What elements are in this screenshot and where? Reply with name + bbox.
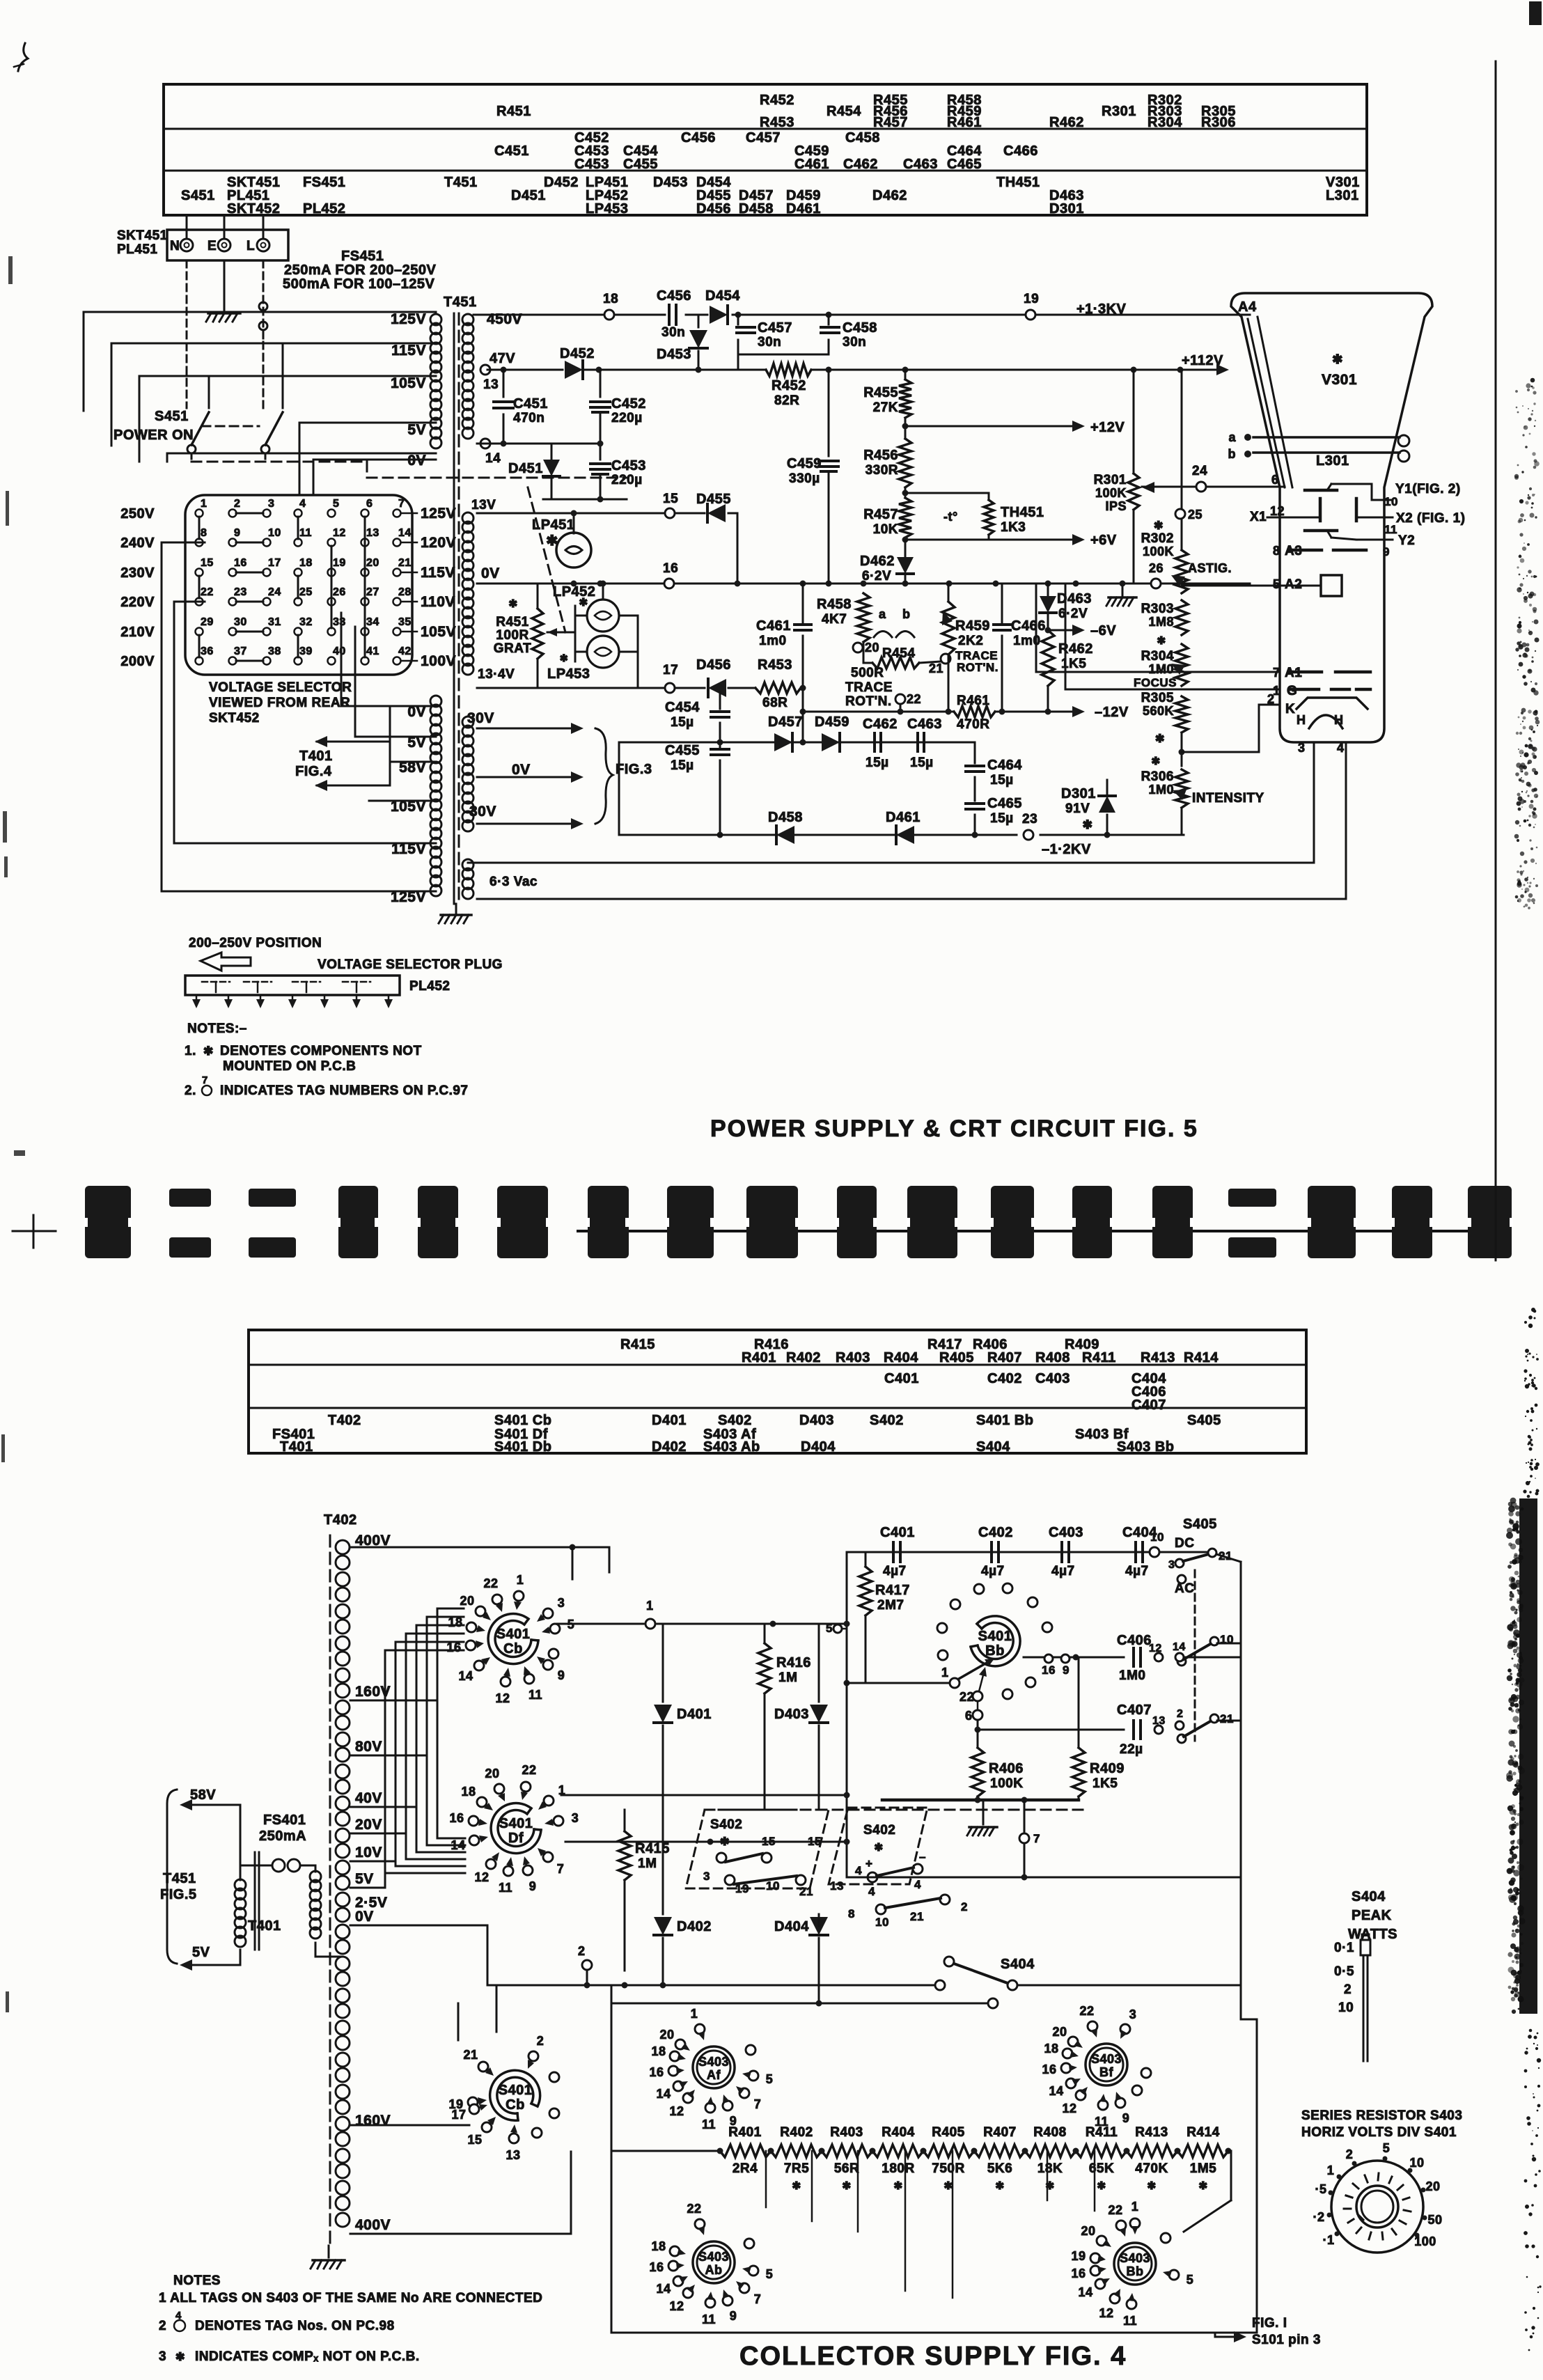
svg-text:11: 11 xyxy=(702,2117,716,2131)
svg-text:330R: 330R xyxy=(866,463,898,478)
svg-text:PL452: PL452 xyxy=(409,979,450,994)
svg-text:3: 3 xyxy=(558,1596,565,1610)
svg-text:L301: L301 xyxy=(1326,188,1359,203)
svg-text:26: 26 xyxy=(1149,561,1164,575)
svg-text:C461: C461 xyxy=(794,157,829,172)
svg-text:FS451: FS451 xyxy=(303,175,345,190)
svg-text:D301: D301 xyxy=(1049,201,1084,217)
svg-text:C401: C401 xyxy=(884,1371,919,1386)
svg-text:R408: R408 xyxy=(1033,2125,1066,2140)
svg-text:21: 21 xyxy=(799,1885,813,1898)
svg-text:4µ7: 4µ7 xyxy=(1051,1564,1075,1579)
svg-text:FIG. I: FIG. I xyxy=(1252,2316,1287,2331)
svg-text:34: 34 xyxy=(366,616,379,628)
svg-text:30n: 30n xyxy=(661,325,685,340)
svg-text:D402: D402 xyxy=(677,1919,712,1934)
svg-text:9: 9 xyxy=(529,1879,537,1893)
svg-text:12: 12 xyxy=(669,2104,684,2118)
svg-text:21: 21 xyxy=(910,1910,924,1923)
svg-text:R306: R306 xyxy=(1201,115,1236,130)
svg-text:C465: C465 xyxy=(987,796,1022,811)
svg-text:–6V: –6V xyxy=(1090,623,1116,639)
svg-text:+1·3KV: +1·3KV xyxy=(1076,302,1127,317)
svg-text:37: 37 xyxy=(234,645,247,657)
svg-text:38: 38 xyxy=(268,645,281,657)
svg-text:12: 12 xyxy=(1149,1643,1162,1654)
svg-text:1: 1 xyxy=(201,498,207,510)
svg-text:1M: 1M xyxy=(778,1670,797,1685)
svg-text:S451: S451 xyxy=(181,188,215,203)
svg-text:SKT451: SKT451 xyxy=(117,228,168,243)
svg-text:D403: D403 xyxy=(774,1707,809,1722)
svg-text:✱: ✱ xyxy=(720,1836,730,1848)
svg-text:240V: 240V xyxy=(120,535,155,551)
svg-text:T401: T401 xyxy=(280,1439,313,1455)
svg-text:✱: ✱ xyxy=(1332,352,1343,366)
svg-text:+6V: +6V xyxy=(1090,533,1117,548)
svg-text:22: 22 xyxy=(483,1576,498,1590)
svg-text:T451: T451 xyxy=(163,1871,196,1886)
svg-text:7: 7 xyxy=(754,2097,762,2111)
svg-text:4: 4 xyxy=(1337,741,1345,755)
svg-text:16: 16 xyxy=(649,2260,664,2274)
svg-text:C457: C457 xyxy=(758,320,792,336)
svg-text:11: 11 xyxy=(1123,2314,1137,2328)
svg-text:R405: R405 xyxy=(932,2125,964,2140)
svg-text:40: 40 xyxy=(333,645,346,657)
svg-text:12: 12 xyxy=(474,1870,489,1884)
svg-text:R407: R407 xyxy=(983,2125,1016,2140)
svg-text:450V: 450V xyxy=(487,311,522,327)
svg-text:✱: ✱ xyxy=(1151,756,1160,767)
svg-text:10: 10 xyxy=(766,1879,780,1893)
svg-text:POWER ON: POWER ON xyxy=(113,428,194,443)
svg-text:FS451: FS451 xyxy=(341,249,384,264)
svg-text:24: 24 xyxy=(268,586,281,598)
svg-text:14: 14 xyxy=(1078,2285,1092,2299)
svg-text:22: 22 xyxy=(522,1763,536,1777)
svg-text:30V: 30V xyxy=(469,804,496,820)
svg-text:23: 23 xyxy=(234,586,247,598)
svg-text:C462: C462 xyxy=(863,717,898,732)
svg-text:20: 20 xyxy=(485,1767,499,1780)
svg-text:R402: R402 xyxy=(786,1350,821,1365)
svg-text:120V: 120V xyxy=(421,535,456,551)
svg-text:9: 9 xyxy=(1063,1663,1070,1677)
svg-text:7: 7 xyxy=(1033,1832,1040,1845)
svg-text:C455: C455 xyxy=(623,157,658,172)
svg-text:1: 1 xyxy=(646,1599,654,1613)
svg-text:560K: 560K xyxy=(1143,704,1174,718)
svg-text:15: 15 xyxy=(201,557,214,569)
svg-text:WATTS: WATTS xyxy=(1348,1927,1397,1942)
svg-text:✱: ✱ xyxy=(1155,733,1165,745)
svg-text:5V: 5V xyxy=(355,1871,374,1887)
svg-text:100R: 100R xyxy=(496,628,528,643)
svg-text:0V: 0V xyxy=(481,565,500,581)
svg-text:30n: 30n xyxy=(843,335,866,350)
svg-text:a: a xyxy=(1228,430,1236,444)
svg-text:1K3: 1K3 xyxy=(1001,520,1026,535)
svg-text:30V: 30V xyxy=(467,710,494,726)
svg-text:FIG.4: FIG.4 xyxy=(295,764,332,779)
svg-text:27: 27 xyxy=(366,586,379,598)
svg-text:C402: C402 xyxy=(978,1525,1013,1540)
svg-text:1M0: 1M0 xyxy=(1148,662,1174,676)
svg-text:S402: S402 xyxy=(718,1413,752,1428)
svg-text:2M7: 2M7 xyxy=(877,1598,904,1613)
svg-text:✱: ✱ xyxy=(560,652,568,664)
svg-text:DENOTES TAG Nos. ON PC.98: DENOTES TAG Nos. ON PC.98 xyxy=(195,2319,395,2333)
svg-text:Cb: Cb xyxy=(506,2097,525,2113)
svg-text:22µ: 22µ xyxy=(1120,1742,1143,1757)
svg-text:R452: R452 xyxy=(771,378,806,393)
svg-text:✱: ✱ xyxy=(203,1044,214,1058)
svg-text:T451: T451 xyxy=(444,175,478,190)
svg-text:100K: 100K xyxy=(990,1776,1023,1791)
svg-text:D452: D452 xyxy=(560,346,595,361)
svg-text:0·1: 0·1 xyxy=(1334,1941,1354,1955)
svg-text:31: 31 xyxy=(268,616,281,628)
svg-text:R408: R408 xyxy=(1035,1350,1070,1365)
svg-text:R404: R404 xyxy=(884,1350,918,1365)
svg-text:13: 13 xyxy=(1152,1715,1166,1727)
svg-text:50: 50 xyxy=(1427,2213,1442,2227)
svg-text:4: 4 xyxy=(914,1878,921,1891)
svg-text:C461: C461 xyxy=(756,618,791,634)
svg-text:8: 8 xyxy=(201,527,207,539)
svg-text:18: 18 xyxy=(461,1785,476,1799)
svg-text:D453: D453 xyxy=(657,347,691,362)
svg-text:C455: C455 xyxy=(665,743,700,758)
svg-text:✱: ✱ xyxy=(842,2180,851,2192)
svg-text:R413: R413 xyxy=(1141,1350,1175,1365)
svg-text:40V: 40V xyxy=(355,1790,382,1806)
svg-text:9: 9 xyxy=(1383,545,1390,558)
svg-text:29: 29 xyxy=(201,616,214,628)
svg-text:22: 22 xyxy=(1108,2203,1122,2217)
svg-text:250V: 250V xyxy=(120,506,155,522)
svg-text:11: 11 xyxy=(702,2312,716,2326)
svg-text:42: 42 xyxy=(398,645,412,657)
svg-text:500mA FOR 100–125V: 500mA FOR 100–125V xyxy=(283,276,435,292)
svg-text:D455: D455 xyxy=(696,492,731,507)
svg-text:6·3 Vac: 6·3 Vac xyxy=(489,875,538,889)
svg-text:30: 30 xyxy=(234,616,247,628)
svg-text:16: 16 xyxy=(1042,1663,1056,1677)
svg-text:7: 7 xyxy=(754,2292,762,2306)
svg-text:C402: C402 xyxy=(987,1371,1022,1386)
svg-text:3: 3 xyxy=(159,2349,166,2364)
svg-text:+12V: +12V xyxy=(1090,420,1125,435)
svg-text:1M8: 1M8 xyxy=(1148,615,1174,629)
svg-text:1.: 1. xyxy=(185,1044,196,1058)
svg-text:17: 17 xyxy=(451,2108,466,2122)
svg-text:2: 2 xyxy=(537,2034,545,2048)
svg-text:T401: T401 xyxy=(299,749,333,764)
svg-text:R411: R411 xyxy=(1082,1350,1116,1365)
svg-text:SERIES RESISTOR S403: SERIES RESISTOR S403 xyxy=(1301,2108,1462,2123)
svg-text:S404: S404 xyxy=(976,1439,1010,1455)
svg-text:R415: R415 xyxy=(635,1841,670,1856)
svg-text:8: 8 xyxy=(1273,544,1280,558)
svg-text:100V: 100V xyxy=(421,653,456,669)
svg-text:10: 10 xyxy=(268,527,281,539)
svg-text:10V: 10V xyxy=(355,1845,382,1861)
svg-text:39: 39 xyxy=(299,645,313,657)
svg-text:C464: C464 xyxy=(987,758,1022,773)
svg-text:R306: R306 xyxy=(1141,769,1174,784)
svg-text:3: 3 xyxy=(1298,741,1306,755)
svg-text:20: 20 xyxy=(460,1594,474,1608)
svg-text:2: 2 xyxy=(234,498,240,510)
svg-text:2R4: 2R4 xyxy=(733,2161,758,2176)
svg-text:R462: R462 xyxy=(1049,115,1084,130)
svg-text:2K2: 2K2 xyxy=(958,634,983,648)
svg-text:✱: ✱ xyxy=(579,597,588,609)
svg-text:D402: D402 xyxy=(652,1439,687,1455)
svg-text:Bf: Bf xyxy=(1099,2065,1113,2079)
svg-text:C453: C453 xyxy=(611,458,646,473)
svg-text:5: 5 xyxy=(1383,2141,1391,2155)
svg-text:S402: S402 xyxy=(710,1817,742,1832)
svg-text:DENOTES COMPONENTS NOT: DENOTES COMPONENTS NOT xyxy=(220,1044,422,1058)
svg-text:0·5: 0·5 xyxy=(1334,1964,1354,1979)
svg-text:D404: D404 xyxy=(801,1439,836,1455)
svg-text:✱: ✱ xyxy=(1198,2180,1207,2192)
svg-text:INDICATES TAG NUMBERS ON P: INDICATES TAG NUMBERS ON P.C.97 xyxy=(220,1083,469,1098)
svg-text:220µ: 220µ xyxy=(611,411,643,425)
svg-text:✱: ✱ xyxy=(1147,2180,1156,2192)
svg-text:12: 12 xyxy=(1270,504,1285,518)
svg-text:Ab: Ab xyxy=(705,2263,723,2277)
svg-text:COLLECTOR SUPPLY FIG. 4: COLLECTOR SUPPLY FIG. 4 xyxy=(739,2342,1127,2371)
svg-text:C454: C454 xyxy=(665,700,700,715)
svg-text:C465: C465 xyxy=(947,157,982,172)
svg-text:4µ7: 4µ7 xyxy=(883,1564,907,1579)
svg-text:R304: R304 xyxy=(1148,115,1182,130)
svg-text:20V: 20V xyxy=(355,1817,382,1833)
svg-text:28: 28 xyxy=(398,586,412,598)
svg-text:11: 11 xyxy=(299,527,312,539)
svg-text:110V: 110V xyxy=(421,594,455,610)
svg-text:S405: S405 xyxy=(1187,1413,1221,1428)
svg-text:13: 13 xyxy=(830,1879,844,1893)
svg-text:✱: ✱ xyxy=(1097,2180,1106,2192)
svg-text:C453: C453 xyxy=(574,157,609,172)
svg-text:2.: 2. xyxy=(185,1083,196,1098)
svg-text:200–250V POSITION: 200–250V POSITION xyxy=(189,936,322,950)
svg-text:1K5: 1K5 xyxy=(1092,1776,1118,1791)
svg-text:R451: R451 xyxy=(496,104,531,119)
svg-text:A4: A4 xyxy=(1238,299,1257,315)
svg-text:13: 13 xyxy=(366,527,379,539)
svg-text:105V: 105V xyxy=(421,624,456,640)
svg-text:ASTIG.: ASTIG. xyxy=(1188,561,1232,575)
svg-text:b: b xyxy=(902,607,911,621)
svg-text:S404: S404 xyxy=(1001,1957,1035,1972)
svg-text:T402: T402 xyxy=(328,1413,361,1428)
svg-text:115V: 115V xyxy=(391,343,426,359)
svg-text:24: 24 xyxy=(1192,464,1207,478)
svg-text:R457: R457 xyxy=(863,507,898,522)
svg-text:5K6: 5K6 xyxy=(987,2161,1012,2176)
svg-text:D456: D456 xyxy=(696,201,731,217)
svg-text:22: 22 xyxy=(201,586,214,598)
svg-text:7: 7 xyxy=(202,1074,208,1086)
svg-text:S401 Cb: S401 Cb xyxy=(494,1413,551,1428)
svg-text:13: 13 xyxy=(483,377,499,392)
svg-text:15: 15 xyxy=(808,1835,822,1848)
svg-text:6·2V: 6·2V xyxy=(1058,606,1088,621)
svg-text:16: 16 xyxy=(649,2065,664,2079)
svg-text:R452: R452 xyxy=(760,93,794,108)
svg-text:LP453: LP453 xyxy=(586,201,628,217)
svg-text:18: 18 xyxy=(651,2044,666,2058)
svg-text:9: 9 xyxy=(730,2309,737,2323)
svg-text:6·2V: 6·2V xyxy=(862,569,891,584)
svg-text:19: 19 xyxy=(333,557,346,569)
svg-text:125V: 125V xyxy=(421,506,456,522)
svg-text:470R: 470R xyxy=(957,717,989,732)
svg-text:15: 15 xyxy=(663,492,678,506)
svg-text:–1·2KV: –1·2KV xyxy=(1042,842,1091,857)
svg-text:9: 9 xyxy=(1122,2111,1130,2125)
svg-text:D461: D461 xyxy=(786,201,821,217)
svg-text:19: 19 xyxy=(1071,2249,1086,2263)
svg-text:20: 20 xyxy=(1052,2025,1067,2039)
svg-text:D403: D403 xyxy=(799,1413,834,1428)
svg-text:LP453: LP453 xyxy=(547,666,590,682)
svg-text:10: 10 xyxy=(1150,1530,1164,1544)
svg-text:10: 10 xyxy=(1409,2156,1424,2170)
svg-text:FIG.3: FIG.3 xyxy=(616,762,652,777)
svg-text:1M0: 1M0 xyxy=(1119,1668,1145,1683)
svg-text:82R: 82R xyxy=(774,393,799,408)
svg-text:0V: 0V xyxy=(512,762,531,778)
svg-text:R459: R459 xyxy=(955,618,990,634)
svg-text:S401: S401 xyxy=(496,1627,531,1642)
svg-text:·2: ·2 xyxy=(1313,2210,1324,2224)
svg-text:·1: ·1 xyxy=(1322,2233,1334,2247)
svg-text:K: K xyxy=(1285,702,1295,717)
svg-text:✱: ✱ xyxy=(943,2180,953,2192)
svg-text:25: 25 xyxy=(1188,508,1203,522)
svg-text:FIG.5: FIG.5 xyxy=(160,1887,197,1902)
svg-text:R416: R416 xyxy=(776,1655,811,1670)
svg-text:D462: D462 xyxy=(872,188,907,203)
svg-text:1: 1 xyxy=(941,1666,949,1680)
svg-text:22: 22 xyxy=(907,692,921,706)
svg-text:✱: ✱ xyxy=(995,2180,1004,2192)
svg-text:Af: Af xyxy=(707,2068,721,2082)
svg-text:L301: L301 xyxy=(1316,453,1349,469)
svg-text:5V: 5V xyxy=(407,422,426,438)
svg-text:H: H xyxy=(1297,713,1306,727)
svg-text:INTENSITY: INTENSITY xyxy=(1192,791,1264,806)
svg-text:b: b xyxy=(1228,447,1237,461)
svg-text:C462: C462 xyxy=(843,157,878,172)
svg-text:100K: 100K xyxy=(1095,486,1127,500)
svg-text:R417: R417 xyxy=(875,1583,910,1598)
svg-text:R455: R455 xyxy=(863,385,898,400)
svg-text:D459: D459 xyxy=(815,714,849,730)
svg-text:S401: S401 xyxy=(499,1816,533,1831)
svg-text:R456: R456 xyxy=(863,448,898,463)
svg-text:14: 14 xyxy=(398,527,412,539)
svg-text:10K: 10K xyxy=(873,522,898,537)
svg-text:16: 16 xyxy=(234,557,247,569)
svg-text:D458: D458 xyxy=(739,201,774,217)
svg-text:FOCUS: FOCUS xyxy=(1134,676,1177,689)
svg-text:LP451: LP451 xyxy=(532,517,574,533)
svg-text:13: 13 xyxy=(506,2148,520,2162)
svg-text:6: 6 xyxy=(965,1709,973,1723)
svg-text:✱: ✱ xyxy=(1154,520,1164,532)
svg-text:230V: 230V xyxy=(120,565,155,581)
svg-text:T402: T402 xyxy=(324,1512,357,1528)
svg-text:68R: 68R xyxy=(762,696,788,710)
svg-text:D404: D404 xyxy=(774,1919,809,1934)
svg-text:C466: C466 xyxy=(1003,143,1038,159)
svg-text:18: 18 xyxy=(603,292,618,306)
svg-text:14: 14 xyxy=(451,1838,465,1852)
svg-text:10: 10 xyxy=(1384,495,1398,508)
svg-text:R304: R304 xyxy=(1141,649,1174,664)
svg-text:250mA FOR 200–250V: 250mA FOR 200–250V xyxy=(284,263,437,278)
svg-text:56R: 56R xyxy=(834,2161,859,2176)
svg-text:R407: R407 xyxy=(987,1350,1022,1365)
svg-text:ROT'N.: ROT'N. xyxy=(957,661,998,674)
svg-text:D454: D454 xyxy=(705,288,740,304)
svg-text:NOTES: NOTES xyxy=(173,2273,221,2288)
svg-text:R414: R414 xyxy=(1186,2125,1219,2140)
svg-text:·5: ·5 xyxy=(1315,2182,1326,2196)
svg-text:✱: ✱ xyxy=(792,2180,801,2192)
svg-text:16: 16 xyxy=(1071,2267,1086,2280)
svg-text:C451: C451 xyxy=(494,143,529,159)
svg-text:C463: C463 xyxy=(907,717,942,732)
svg-text:14: 14 xyxy=(656,2087,671,2101)
svg-text:5: 5 xyxy=(766,2267,774,2281)
svg-text:R451: R451 xyxy=(496,615,528,629)
svg-text:5V: 5V xyxy=(192,1945,210,1960)
svg-text:11: 11 xyxy=(1095,2115,1109,2129)
svg-text:1: 1 xyxy=(1327,2163,1335,2177)
svg-text:R458: R458 xyxy=(817,597,852,612)
svg-text:9: 9 xyxy=(730,2114,737,2128)
svg-text:14: 14 xyxy=(1049,2084,1063,2098)
svg-text:30n: 30n xyxy=(758,335,781,350)
svg-text:15µ: 15µ xyxy=(866,756,889,770)
svg-text:D401: D401 xyxy=(652,1413,687,1428)
svg-text:23: 23 xyxy=(1022,812,1037,827)
svg-text:2: 2 xyxy=(159,2319,166,2333)
svg-text:D457: D457 xyxy=(768,714,803,730)
svg-text:3: 3 xyxy=(572,1811,579,1825)
svg-text:5: 5 xyxy=(766,2072,774,2086)
svg-text:15µ: 15µ xyxy=(990,773,1014,788)
svg-text:+: + xyxy=(866,1857,872,1870)
svg-text:36: 36 xyxy=(201,645,214,657)
svg-text:22: 22 xyxy=(687,2202,701,2216)
svg-text:C457: C457 xyxy=(746,130,781,146)
svg-text:22: 22 xyxy=(960,1690,974,1704)
svg-text:58V: 58V xyxy=(190,1787,216,1803)
svg-text:160V: 160V xyxy=(355,2113,391,2129)
svg-text:13V: 13V xyxy=(471,498,496,512)
svg-text:18: 18 xyxy=(299,557,313,569)
